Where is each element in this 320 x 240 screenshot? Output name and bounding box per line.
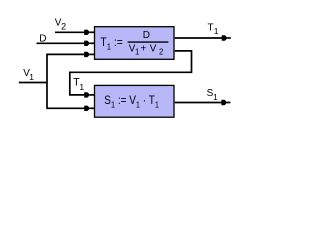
label numerator D [143,30,150,41]
fraction bar [128,41,169,43]
arrowhead V1 into S1 [84,106,94,111]
wire V1 into S1 [46,107,85,109]
svg-text:D: D [143,30,150,41]
svg-text:1: 1 [213,92,218,102]
svg-text:+: + [141,43,147,54]
block S1 (S1 := V1 * T1) [95,85,175,117]
label T1 output [208,22,219,36]
label S1 output [207,88,218,102]
wire S1 output [175,102,223,104]
svg-text:1: 1 [29,72,34,82]
label V2 [55,18,66,32]
label V1 [23,68,34,82]
svg-text:2: 2 [61,22,66,32]
wire D input [37,42,86,44]
label denominator V1+V2 [129,43,164,56]
svg-text:1: 1 [214,26,219,36]
svg-text:1: 1 [135,48,139,57]
arrowhead V1 into T1 [84,52,94,57]
arrowhead S1 output [221,100,230,105]
label T1 feedback [73,77,84,92]
label T1 := inside block T1 [100,37,123,51]
wire V1 horizontal feed [19,82,47,84]
svg-text:V: V [150,43,157,54]
arrowhead D into T1 [84,41,94,46]
wire V1 vertical branch [47,54,85,108]
label S1 := V1 . T1 inside block S1 [104,93,159,109]
arrowhead T1 feedback into S1 [84,92,94,97]
svg-text:T: T [208,22,214,33]
arrowhead T1 output [222,35,231,40]
wire V2 input [55,31,85,33]
arrowhead V2 into T1 [84,30,94,35]
wire T1 output [175,37,223,39]
svg-text:2: 2 [159,48,163,57]
wire T1 feedback loop [70,51,192,95]
svg-text:1: 1 [79,82,84,92]
block T1 (T1 := D/(V1+V2)) [95,27,175,60]
svg-text:D: D [39,34,46,45]
label D [39,34,46,45]
